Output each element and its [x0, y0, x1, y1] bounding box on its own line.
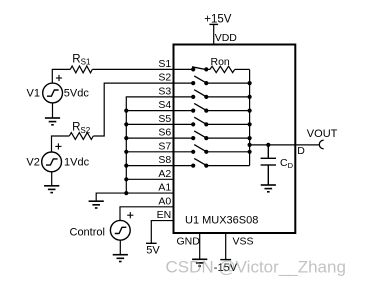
plus mark V2 [55, 143, 61, 149]
wire bus to pin D [250, 144, 296, 146]
wire pin S6 to bus [126, 137, 173, 139]
wire switch S7 to output bus [206, 151, 249, 153]
switch S7: contacts and arm [174, 145, 209, 154]
svg-text:S3: S3 [158, 85, 171, 97]
svg-text:VDD: VDD [215, 32, 238, 44]
wire R_S1 to pin S1 [92, 68, 173, 70]
wire V2 bottom to ground [51, 172, 53, 186]
svg-text:5Vdc: 5Vdc [64, 87, 90, 99]
svg-text:D: D [297, 145, 305, 157]
wire V1 top to R_S1 [52, 69, 70, 83]
wire pin GND down [199, 233, 201, 259]
junction dot S4 bus [124, 109, 128, 113]
wire switch S3 to output bus [206, 96, 249, 98]
voltage source Control [110, 220, 130, 240]
voltage source V1 [43, 83, 63, 103]
switch S6: contacts and arm [174, 131, 209, 140]
switch S4: contacts and arm [174, 103, 209, 112]
wire pin A0 to control source [120, 207, 174, 221]
wire switch S5 to output bus [206, 123, 249, 125]
svg-text:U1 MUX36S08: U1 MUX36S08 [185, 215, 258, 227]
ground below GND pin [192, 259, 207, 266]
junction dot C_D tap [266, 143, 270, 147]
wire Ron to output bus [235, 68, 250, 70]
junction dot output bus S5 [248, 122, 252, 126]
switch S5: contacts and arm [174, 117, 209, 126]
plus mark V1 [56, 75, 62, 81]
wire pin D to VOUT port [295, 144, 319, 146]
svg-text:Control: Control [70, 226, 105, 238]
junction dot S5 bus [124, 122, 128, 126]
wire V1 bottom to ground [52, 103, 54, 118]
wire bus S3-A1 tie-down [126, 97, 173, 193]
resistor Ron zigzag [210, 66, 235, 72]
wire Control bottom to ground [119, 240, 121, 255]
power bar 5V [146, 242, 157, 244]
junction dot A2 bus [124, 177, 128, 181]
svg-text:S6: S6 [158, 127, 171, 139]
ground below Control [113, 255, 128, 262]
svg-text:A1: A1 [158, 182, 171, 194]
wire R_S2 up to pin S2 [93, 83, 173, 136]
op-amp U1 MUX36S08 body box [174, 45, 296, 234]
svg-text:S8: S8 [158, 154, 171, 166]
wire pin S8 to bus [126, 165, 173, 167]
svg-text:VOUT: VOUT [307, 128, 338, 140]
power bar -15V [220, 259, 231, 261]
svg-text:CSDN @Victor__Zhang: CSDN @Victor__Zhang [166, 258, 346, 277]
junction dot output bus S4 [248, 109, 252, 113]
junction dot output bus S2 [248, 81, 252, 85]
svg-text:EN: EN [157, 209, 172, 221]
wire switch S2 to output bus [206, 82, 249, 84]
svg-text:5V: 5V [146, 244, 160, 256]
switch S3: contacts and arm [174, 90, 209, 99]
switch S1: contacts and arm [174, 67, 209, 72]
junction dot A1 bus [124, 191, 128, 195]
svg-text:V2: V2 [26, 157, 39, 169]
svg-text:VSS: VSS [233, 236, 254, 248]
wire switch S1 to Ron [206, 68, 210, 70]
ground below V1 [45, 118, 60, 125]
ground on A1 net [89, 201, 104, 208]
svg-text:A0: A0 [158, 195, 171, 207]
plus mark Control [127, 212, 133, 218]
switch S8: contacts and arm [174, 158, 209, 167]
ground below C_D [261, 185, 276, 192]
wire pin S5 to bus [126, 123, 173, 125]
power symbol +15V [204, 13, 232, 44]
wire pin VSS down [225, 233, 227, 260]
svg-text:1Vdc: 1Vdc [64, 157, 90, 169]
capacitor C_D [261, 145, 276, 185]
junction dot output bus S6 [248, 136, 252, 140]
svg-text:GND: GND [177, 236, 201, 248]
svg-text:A2: A2 [158, 168, 171, 180]
ground below V2 [44, 186, 59, 193]
voltage source V2 [42, 152, 62, 172]
wire pin A2 to bus [126, 178, 173, 180]
wire output bus (common drain) [249, 69, 251, 165]
wire pin S7 to bus [126, 151, 173, 153]
switch S2: contacts and arm [174, 76, 209, 85]
resistor R_S2 [69, 133, 93, 140]
junction dot output bus S7 [248, 150, 252, 154]
wire switch S4 to output bus [206, 110, 249, 112]
wire pin A1 to ground [96, 193, 173, 201]
svg-text:Ron: Ron [211, 56, 230, 68]
wire switch S8 to output bus [206, 165, 249, 167]
wire switch S6 to output bus [206, 137, 249, 139]
svg-text:S1: S1 [158, 58, 171, 70]
junction dot S8 bus [124, 164, 128, 168]
node VOUT port arc [319, 140, 323, 149]
junction dot output bus S3 [248, 95, 252, 99]
wire pin EN to 5V supply [151, 221, 173, 244]
svg-text:+15V: +15V [204, 13, 232, 25]
junction dot S6 bus [124, 136, 128, 140]
svg-text:V1: V1 [27, 87, 40, 99]
wire pin S4 to bus [126, 110, 173, 112]
resistor R_S1 [70, 66, 92, 73]
junction dot S7 bus [124, 150, 128, 154]
svg-text:S4: S4 [158, 99, 171, 111]
svg-text:S7: S7 [158, 140, 171, 152]
wire V2 top to R_S2 [52, 136, 70, 152]
svg-text:S2: S2 [158, 72, 171, 84]
svg-text:S5: S5 [158, 113, 171, 125]
junction dot output bus D line [248, 143, 252, 147]
